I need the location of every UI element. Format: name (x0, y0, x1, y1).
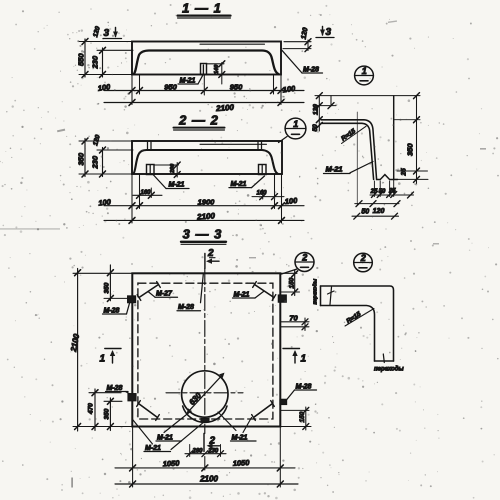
left end cap (320, 286, 322, 306)
label M-27 (148, 291, 178, 298)
svg-text:950: 950 (230, 83, 243, 92)
section marker 3 (left, down arrow) (103, 28, 122, 40)
svg-text:2: 2 (209, 436, 216, 447)
flange pass lines left (147, 142, 149, 151)
embedded plate left-top (128, 296, 136, 303)
svg-text:1050: 1050 (232, 458, 250, 468)
slab edge vertical (detail 1) (393, 96, 395, 180)
bar box diagonal tick (202, 65, 204, 74)
leader circle to M-21 row1 right (218, 412, 236, 431)
bar box left (2-2) (147, 165, 155, 175)
dim row 100/950/950/100 (104, 90, 304, 92)
svg-text:2: 2 (360, 253, 366, 263)
corner bar bottom-left (137, 401, 160, 421)
horizontal centerline (166, 392, 243, 394)
R=15 leader (detail 2) (345, 309, 374, 327)
plan outer rectangle (132, 273, 280, 426)
svg-text:1 — 1: 1 — 1 (182, 1, 222, 16)
leader plate to M-21 row2 (171, 422, 204, 449)
section marker 3 (right, down arrow) (316, 27, 334, 39)
svg-text:М-21: М-21 (169, 182, 185, 189)
svg-text:100: 100 (284, 196, 298, 206)
svg-text:М-21: М-21 (326, 165, 343, 174)
svg-text:280: 280 (191, 448, 203, 454)
dim 150 top-right (294, 270, 296, 296)
label M-21 row2 (144, 445, 171, 452)
break tick top leg (330, 287, 332, 305)
svg-text:230: 230 (91, 155, 100, 169)
svg-text:950: 950 (164, 83, 177, 92)
bottom ext verticals 2-2 (131, 174, 133, 223)
dim 160 left (133, 188, 162, 198)
corner bar top-right (253, 282, 276, 301)
dim 70 right (281, 313, 309, 330)
label M-21 right (2-2) (229, 176, 265, 188)
svg-text:2 — 2: 2 — 2 (178, 113, 219, 128)
bottom ext verticals plan (132, 427, 134, 488)
label M-28 (section 1-1) (282, 50, 323, 74)
bar M-21 outer line (321, 120, 377, 180)
svg-text:230: 230 (91, 55, 100, 69)
left ext lines plan (73, 272, 132, 274)
section mark 1 left (100, 349, 122, 365)
svg-text:М-27: М-27 (156, 291, 173, 298)
svg-text:2100: 2100 (199, 475, 218, 484)
dim 470 bottom-left (94, 389, 96, 431)
svg-text:120: 120 (313, 104, 320, 115)
right ext top edge (280, 272, 297, 274)
svg-text:150: 150 (289, 277, 296, 288)
box height dim ext line (207, 63, 225, 65)
section mark 2 bottom (204, 434, 220, 452)
callout circle 1 on 2-2 (279, 118, 306, 142)
svg-text:470: 470 (88, 403, 95, 415)
svg-text:550: 550 (77, 53, 86, 66)
center bottom dim 280/230 (185, 445, 226, 457)
label M-21 (plan top right) (233, 292, 264, 299)
hole circle (182, 371, 228, 417)
top ext line (315, 95, 420, 97)
right ext lines of 1-1 (284, 41, 311, 43)
svg-text:3: 3 (104, 28, 110, 39)
svg-text:25: 25 (370, 189, 378, 195)
dim line 350 (2-2) (84, 139, 86, 177)
lower dim 50/120 (352, 112, 400, 219)
label M-28 (plan center top) (177, 274, 203, 311)
svg-text:1: 1 (293, 119, 298, 129)
corner bar bottom-right (252, 401, 275, 421)
label M-21 row1 right (231, 435, 257, 442)
slab 1-1 second top line (200, 43, 265, 45)
svg-text:переходы: переходы (313, 278, 319, 304)
hole lower second arc (183, 406, 227, 422)
svg-text:120: 120 (373, 208, 385, 215)
svg-text:1: 1 (100, 354, 106, 365)
slab 2-2 outer outline (132, 141, 282, 174)
title 1-1 (178, 1, 231, 19)
hole diameter arrow (187, 373, 225, 414)
slab 1-1 left curve shading (135, 54, 140, 72)
dim line 2100 vertical (77, 269, 79, 432)
dim row 1050/1050 (115, 467, 295, 469)
dim line 230 (2-2) (102, 148, 104, 177)
flange pass lines right (257, 142, 259, 151)
dim 160 right (252, 190, 284, 200)
svg-text:3: 3 (326, 27, 332, 38)
bar M-21 inner line (321, 123, 374, 179)
slab bottom with drip notch (377, 175, 398, 180)
box dim ticks (219, 61, 225, 67)
embedded plate right-bottom (280, 399, 287, 404)
dim 350 top-left (109, 265, 111, 301)
dim row 2100 (plan bottom) (115, 483, 298, 485)
ext lines left (2-2) (79, 140, 132, 142)
svg-text:350: 350 (104, 408, 111, 419)
label M-28 right-bottom plate (286, 384, 317, 401)
svg-text:М-28: М-28 (178, 304, 194, 311)
ext lines right (detail 1) (394, 119, 420, 121)
corner outer contour (321, 286, 394, 361)
svg-text:1050: 1050 (162, 459, 180, 469)
break tick bottom leg (383, 354, 384, 363)
svg-text:2: 2 (301, 252, 307, 262)
box dim ext (2-2) (154, 164, 179, 166)
bar box in slab 1-1 (201, 64, 207, 75)
label M-21 (section 1-1) (178, 75, 203, 85)
bar box right (2-2) (259, 165, 267, 175)
box dim line (2-2) (176, 163, 178, 178)
svg-text:150: 150 (299, 411, 306, 422)
R=15 leader (342, 126, 367, 143)
callout circle 2 on plan (282, 252, 315, 274)
svg-text:1900: 1900 (198, 198, 216, 207)
left dim line (120/50) (318, 96, 320, 131)
title 2-2 (174, 113, 225, 131)
svg-text:переходы: переходы (374, 367, 404, 373)
section mark 2 top (205, 248, 219, 269)
svg-text:350: 350 (406, 143, 415, 156)
embedded plate right-top (278, 295, 286, 302)
svg-text:200: 200 (170, 164, 176, 174)
svg-text:25: 25 (401, 168, 408, 177)
svg-text:3 — 3: 3 — 3 (183, 227, 223, 242)
bottom end cap (375, 360, 394, 362)
label M-21 row1 left (156, 435, 182, 442)
svg-text:230: 230 (207, 448, 219, 454)
embedded plate left-bottom (128, 394, 136, 401)
corner bar top-left (137, 282, 160, 301)
dim 350 bottom-left (109, 398, 111, 431)
svg-text:50: 50 (361, 209, 369, 216)
dim row 2100 (104, 102, 304, 104)
slab 2-2 second top line (200, 143, 267, 145)
right dim line 350/25 (416, 96, 418, 184)
label M-21 left (2-2) (154, 175, 190, 189)
detail 2 title circle (354, 253, 373, 272)
hole bottom plate (201, 418, 209, 422)
dim line 550 (84, 39, 86, 77)
dim row 2100 (2-2) (104, 219, 304, 221)
bottom ext verticals 1-1 (131, 75, 133, 105)
leader BR corner to M-21 row1 right (243, 418, 252, 433)
ext stub (330, 96, 332, 106)
ext line top edge left (79, 41, 132, 43)
slab 1-1 outer outline (132, 42, 281, 75)
section mark 1 right (283, 349, 307, 365)
svg-text:1: 1 (301, 354, 307, 365)
slab 1-1 inner profile (134, 51, 279, 75)
title 3-3 (181, 227, 226, 245)
ext line bottom edge left (79, 74, 132, 76)
label M-28 left-bottom plate (106, 385, 130, 394)
slab 2-2 inner profile (134, 150, 278, 174)
plan inner dashed rectangle (138, 283, 273, 419)
svg-text:2100: 2100 (196, 211, 216, 221)
svg-text:350: 350 (104, 282, 111, 293)
dim row 100/1900/100 (104, 205, 304, 207)
svg-text:70: 70 (289, 313, 298, 322)
svg-text:100: 100 (97, 82, 111, 93)
leader BL corner to M-21 row2 (133, 420, 153, 445)
bottom dim 25/50/25 (370, 180, 414, 199)
svg-text:М-21: М-21 (231, 181, 247, 188)
ext line inner level left (97, 49, 133, 51)
svg-text:1: 1 (362, 66, 367, 76)
svg-text:25: 25 (388, 189, 396, 195)
corner inner contour (321, 306, 375, 362)
label M-21 (detail 1) (324, 162, 374, 174)
svg-text:140: 140 (214, 65, 220, 74)
svg-text:50: 50 (312, 124, 319, 132)
dim 150 bottom-right (280, 407, 311, 430)
right small dim line (307, 40, 309, 51)
box height dim line (221, 63, 223, 85)
vertical centerline (204, 269, 206, 434)
svg-text:100: 100 (98, 197, 112, 207)
label M-28 left-top plate (103, 303, 130, 314)
dim line 230 (102, 48, 104, 77)
leader circle to M-21 row1 left (164, 411, 191, 433)
